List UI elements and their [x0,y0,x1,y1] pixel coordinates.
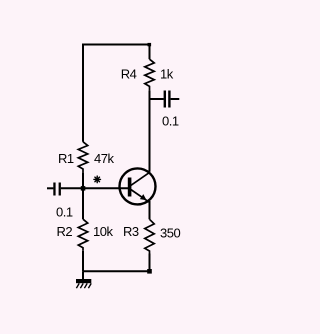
wire output branch [150,98,164,100]
node supply junction [148,43,152,46]
wire emitter rail [149,201,151,219]
svg-text:47k: 47k [94,151,114,166]
svg-text:R2: R2 [57,224,73,239]
wire left rail mid [82,173,84,220]
wire bottom horizontal [83,270,150,272]
wire ground stem [82,271,84,279]
ground [76,279,91,288]
wire right rail lower [149,254,151,272]
resistor R3 [145,219,154,253]
svg-text:R1: R1 [58,151,74,166]
svg-text:10k: 10k [93,224,113,239]
svg-text:350: 350 [160,226,180,241]
resistor R1 [78,142,87,173]
transistor Q1 [120,168,156,204]
node base junction [81,186,86,191]
svg-text:R4: R4 [121,66,137,81]
capacitor C1 [53,183,61,196]
resistor R2 [78,219,87,251]
node asterisk marker [94,176,101,183]
resistor R4 [145,59,154,90]
wire right rail mid [149,91,151,172]
svg-text:0.1: 0.1 [162,113,179,128]
wire left rail upper [82,44,84,142]
wire base [61,187,129,189]
capacitor C2 [164,91,171,108]
wire left rail lower [82,251,84,271]
wire right rail upper [149,45,151,60]
wire top horizontal [83,44,150,46]
wire input stub [47,187,53,189]
wire output stub [171,98,180,100]
svg-text:1k: 1k [160,67,174,82]
node emitter junction [147,269,152,274]
svg-text:R3: R3 [123,224,139,239]
svg-text:0.1: 0.1 [56,205,73,220]
